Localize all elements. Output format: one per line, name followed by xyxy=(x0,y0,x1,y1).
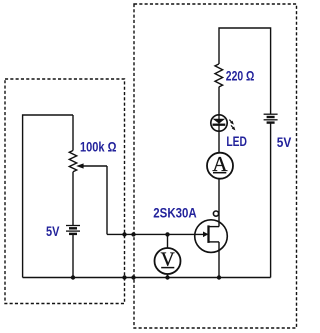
battery B1 5V (left) xyxy=(66,226,80,234)
node: rail terminal at left box edge xyxy=(122,275,126,279)
potentiometer VR1 100k zigzag xyxy=(69,151,76,172)
svg-text:220 Ω: 220 Ω xyxy=(226,69,255,84)
potentiometer wiper arrow xyxy=(83,165,107,167)
wire: LED to ammeter xyxy=(218,131,220,153)
wire: wiper down to gate line xyxy=(106,166,108,234)
wire: resistor to LED xyxy=(218,87,220,116)
module box left (dashed) xyxy=(5,79,125,304)
node: voltmeter/rail junction xyxy=(165,275,169,279)
resistor R1 220 zigzag xyxy=(215,64,223,87)
svg-text:LED: LED xyxy=(226,134,247,149)
svg-text:5V: 5V xyxy=(277,135,292,150)
node: gate line terminal at right box edge xyxy=(131,232,135,236)
battery B2 5V (right) xyxy=(264,114,278,122)
svg-text:100k Ω: 100k Ω xyxy=(80,139,117,154)
wire: left loop (left side + top) xyxy=(23,115,73,278)
wire: ammeter to transistor drain xyxy=(218,179,220,227)
transistor Q1 2SK30A (JFET) xyxy=(195,220,228,253)
wire: right battery bottom lead xyxy=(270,123,272,278)
voltmeter M2 xyxy=(155,248,181,274)
wire: pot bottom lead to battery xyxy=(72,172,74,226)
LED D1 xyxy=(211,115,227,131)
ammeter M1 xyxy=(207,152,233,179)
node: rail terminal at right box edge xyxy=(131,275,135,279)
wire: battery bottom lead xyxy=(72,234,74,278)
wire: common bottom rail xyxy=(23,277,271,279)
node: battery-/rail junction xyxy=(71,275,75,279)
wire: pot top lead xyxy=(72,115,74,151)
wire: right top rail with battery and resistor leads xyxy=(219,28,271,114)
node: voltmeter top junction xyxy=(165,232,169,236)
node: source/rail junction xyxy=(217,275,221,279)
wire: gate line from wiper to transistor xyxy=(107,233,204,235)
wire: voltmeter bottom lead xyxy=(167,274,169,278)
wire: voltmeter top lead xyxy=(167,234,169,248)
node: gate line terminal at left box edge xyxy=(122,232,126,236)
module box right (dashed) xyxy=(134,4,297,328)
node: drain terminal small circle xyxy=(213,211,218,216)
wire: source to bottom rail xyxy=(218,242,220,278)
svg-text:5V: 5V xyxy=(46,224,59,239)
LED emission arrows xyxy=(229,120,236,132)
svg-text:2SK30A: 2SK30A xyxy=(153,206,197,221)
